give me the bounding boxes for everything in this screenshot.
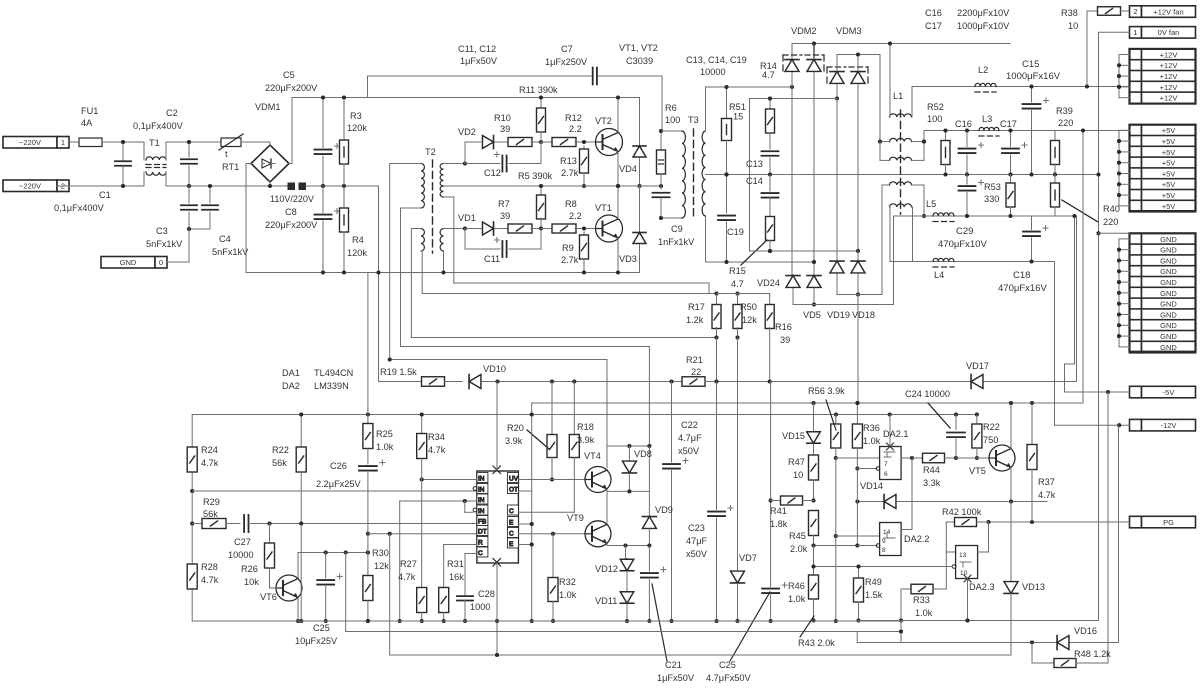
svg-text:GND: GND [1160, 235, 1177, 244]
svg-text:4.7μF: 4.7μF [678, 433, 702, 443]
svg-text:R37: R37 [1038, 477, 1055, 487]
+5V connector block [1130, 125, 1142, 137]
wire DA2.3 bottom pin down [967, 579, 969, 621]
diode VD17 [971, 375, 983, 389]
wire DA2.2 second input [836, 535, 880, 537]
wire neutral rail continues [306, 185, 379, 187]
transistor VT2 [596, 129, 623, 156]
wire VDM1 bottom vertex to neutral rail [269, 181, 271, 186]
wire VDM3 left anode [836, 85, 838, 99]
svg-text:VD11: VD11 [595, 596, 617, 606]
svg-text:-5V: -5V [1163, 388, 1175, 397]
wire DA1 UV row to VT4 base [518, 479, 585, 481]
junction dots C1 [121, 140, 125, 144]
wire VT1 emitter [617, 239, 619, 273]
svg-text:R15: R15 [729, 266, 746, 276]
svg-text:OT: OT [509, 486, 518, 493]
svg-text:8: 8 [882, 547, 886, 554]
svg-text:+5V: +5V [1162, 180, 1176, 189]
wire VDM1 top vertex [269, 142, 271, 146]
wire row3 column down to rail [399, 501, 401, 621]
svg-text:5nFx1kV: 5nFx1kV [212, 247, 249, 257]
resistor R28 [187, 564, 197, 589]
wire x=858 down to R36 [857, 295, 859, 404]
wire VD16 line [857, 642, 1118, 644]
resistor R16 [769, 294, 771, 306]
wire VDM3 cathodes to x=880 [836, 55, 838, 71]
svg-text:4.7: 4.7 [762, 70, 775, 80]
svg-text:4.7k: 4.7k [1038, 490, 1056, 500]
svg-text:UV: UV [509, 475, 519, 482]
diode VD24 [786, 276, 800, 288]
wire VT4 emitter to VT9 collector [606, 489, 608, 491]
wire FU1 to T1 [102, 141, 144, 143]
svg-text:+12V fan: +12V fan [1153, 7, 1183, 16]
resistor R10 [508, 138, 532, 147]
resistor R3 [343, 98, 345, 141]
svg-text:3.9k: 3.9k [577, 435, 595, 445]
svg-text:VD5: VD5 [803, 310, 821, 320]
resistor R41 [771, 500, 781, 502]
wire VT5 collector up [1010, 403, 1012, 449]
capacitor C29 [966, 175, 968, 185]
svg-text:0V fan: 0V fan [1158, 28, 1180, 37]
svg-text:C3039: C3039 [626, 56, 653, 66]
label R3 120k [342, 95, 346, 99]
svg-text:470μFx16V: 470μFx16V [998, 283, 1047, 294]
wire T2 sec bottom top lead [444, 228, 466, 230]
label R20 3.9k with pointer [527, 430, 549, 449]
label R6 100 [659, 129, 663, 133]
svg-text:R8: R8 [565, 199, 577, 209]
svg-text:C: C [478, 550, 483, 557]
line y=414.5 rail [192, 414, 977, 416]
capacitor C12 [465, 163, 500, 165]
resistor R21 [682, 377, 705, 387]
wire VDM3 right anode down [857, 85, 859, 252]
svg-text:GND: GND [1160, 267, 1177, 276]
label C21 1uFx50V pointer [652, 584, 667, 661]
svg-text:L1: L1 [893, 91, 903, 101]
capacitor C15 [1031, 87, 1033, 103]
svg-text:1000μFx10V: 1000μFx10V [957, 21, 1010, 31]
svg-text:R44: R44 [923, 465, 940, 475]
svg-text:220μFx200V: 220μFx200V [265, 83, 318, 93]
diode VD15 [807, 432, 821, 443]
svg-text:220: 220 [1058, 118, 1073, 128]
wire DA2.3 out to PG [978, 551, 989, 553]
svg-text:1μFx50V: 1μFx50V [657, 673, 695, 683]
wire HV bottom rail y=272.5 [246, 272, 640, 274]
resistor R18 [573, 382, 575, 436]
wire R33 line y=620.5 [859, 620, 1099, 622]
svg-text:R10: R10 [494, 113, 511, 123]
resistor R6 [660, 131, 662, 150]
svg-text:DA1: DA1 [282, 368, 300, 378]
svg-text:R18: R18 [577, 422, 594, 432]
capacitor C18 [1031, 216, 1033, 230]
inductor L1 winding E [890, 204, 912, 207]
svg-text:C16: C16 [955, 119, 972, 129]
wire DT line to DA1 [368, 533, 477, 535]
DA1 pin cells [477, 473, 488, 483]
svg-text:100: 100 [927, 114, 942, 124]
diode VD7 [737, 338, 739, 571]
wire T2 primary lead 2 [401, 207, 422, 209]
svg-text:C23: C23 [688, 523, 705, 533]
svg-text:DA2: DA2 [282, 381, 300, 391]
diode VD1 [465, 228, 481, 230]
resistor R9 [583, 232, 585, 237]
svg-text:R41: R41 [770, 506, 787, 516]
resistor R45 [809, 511, 819, 536]
DA1 top pin X [493, 466, 501, 474]
svg-text:R32: R32 [559, 577, 576, 587]
resistor R8 [541, 228, 553, 230]
svg-text:1.5k: 1.5k [865, 590, 883, 600]
svg-text:R56 3.9k: R56 3.9k [808, 386, 845, 396]
svg-text:GND: GND [1160, 343, 1177, 352]
label R7 39 [539, 226, 543, 230]
svg-text:VT4: VT4 [584, 451, 601, 461]
+12V connector block [1130, 49, 1142, 61]
connector PG [1130, 516, 1142, 528]
svg-text:10000: 10000 [228, 550, 254, 560]
wire R42 left down to DA2.3 [945, 522, 947, 552]
capacitor C7 [592, 68, 594, 85]
resistor R53 [1010, 175, 1012, 184]
capacitor C13 [762, 150, 779, 152]
comparator DA2.1 [880, 447, 902, 480]
svg-text:1000: 1000 [470, 602, 490, 612]
svg-text:2200μFx10V: 2200μFx10V [957, 8, 1010, 18]
wire 0V fan to GND [1099, 31, 1130, 33]
svg-text:2.0k: 2.0k [790, 544, 808, 554]
label C8 220uFx200V [321, 270, 325, 274]
junction dot C4 top [208, 184, 212, 188]
svg-text:C25: C25 [719, 660, 736, 670]
wire T3 center tap rail y=174.5 [706, 174, 1098, 176]
svg-text:IN: IN [478, 497, 485, 504]
wire R56 column [813, 403, 815, 431]
wire T3 sec bottom lead down [705, 216, 707, 262]
transistor VT4 [585, 467, 611, 493]
wire VT6 base [270, 587, 277, 589]
capacitor C5 [322, 98, 324, 148]
svg-text:10μFx25V: 10μFx25V [295, 636, 338, 646]
bottom rail y=621 [192, 620, 901, 622]
svg-text:1μFx50V: 1μFx50V [460, 56, 498, 66]
svg-text:L2: L2 [978, 65, 988, 75]
svg-text:R42 100k: R42 100k [942, 507, 982, 517]
connector -5V [1130, 386, 1142, 398]
svg-text:7: 7 [884, 461, 888, 468]
svg-text:VD10: VD10 [483, 364, 506, 374]
svg-text:C5: C5 [283, 70, 295, 80]
wire R16 column down [770, 382, 772, 587]
wire C23 column [716, 382, 718, 510]
wire VT2 emitter [617, 152, 619, 186]
svg-text:R43 2.0k: R43 2.0k [798, 638, 835, 648]
core L1 [900, 110, 902, 214]
svg-text:R45: R45 [789, 531, 806, 541]
svg-text:C4: C4 [219, 234, 231, 244]
fuse FU1 [79, 138, 102, 147]
wire VDM2 left anode down to VD24 [791, 87, 793, 275]
svg-text:DA2.1: DA2.1 [883, 429, 909, 439]
svg-text:GND: GND [1160, 310, 1177, 319]
capacitor C28 [464, 554, 466, 597]
svg-text:2.2: 2.2 [569, 211, 582, 221]
svg-text:R24: R24 [201, 445, 218, 455]
capacitor C14 [769, 175, 771, 192]
svg-text:R13: R13 [560, 156, 577, 166]
capacitor C16 output [966, 131, 968, 147]
wire line y=337.5 from T2 [410, 229, 412, 338]
-5V rail y=216 [894, 215, 1077, 217]
diode VD3 [639, 186, 641, 232]
resistor R56 [835, 415, 837, 425]
resistor R40 [1054, 175, 1056, 184]
svg-text:1: 1 [1133, 28, 1137, 37]
svg-text:R46: R46 [788, 581, 805, 591]
svg-text:VD24: VD24 [757, 278, 780, 288]
comparator DA2.3 [956, 546, 978, 579]
transistor VT6 [276, 575, 302, 601]
wire T2 top primary lead left [390, 163, 421, 165]
inductor L1 winding B [890, 138, 912, 141]
svg-text:4.7k: 4.7k [398, 572, 416, 582]
transformer T3 core [693, 129, 695, 219]
capacitor C17 output [1010, 131, 1012, 147]
capacitor C24 [955, 415, 957, 430]
svg-text:+12V: +12V [1160, 50, 1178, 59]
wire line y=346.5 from T2 [400, 208, 402, 347]
svg-text:6: 6 [884, 471, 888, 478]
svg-text:R16: R16 [775, 322, 792, 332]
svg-text:+12V: +12V [1160, 94, 1178, 103]
DA1 row3 line [400, 500, 477, 502]
svg-text:C13: C13 [746, 159, 763, 169]
svg-text:220: 220 [1103, 217, 1118, 227]
resistor R46 [811, 543, 815, 547]
svg-text:2.7k: 2.7k [561, 168, 579, 178]
wire +HV rail y=97.5 [292, 97, 368, 99]
svg-text:DT: DT [478, 528, 487, 535]
svg-text:VT5: VT5 [969, 466, 986, 476]
svg-text:VDM2: VDM2 [791, 26, 817, 36]
svg-text:RT1: RT1 [222, 162, 239, 172]
wire L1 B,C left join [880, 141, 890, 143]
svg-text:C29: C29 [956, 226, 973, 237]
wire line y=381.5 continues [498, 381, 683, 383]
svg-text:R27: R27 [400, 559, 417, 569]
svg-text:R21: R21 [686, 355, 703, 365]
wire C7 to corner [599, 75, 663, 77]
svg-text:R17: R17 [688, 302, 705, 312]
wire left column x=192.2 [191, 415, 193, 622]
wire anode line y=98.5 [750, 98, 838, 100]
bridge rectifier VDM1 [251, 145, 289, 182]
svg-text:1.0k: 1.0k [376, 442, 394, 452]
inductor L4 [933, 258, 954, 261]
dual diode VDM2 [783, 54, 802, 56]
top +12V rail y=43.5 [792, 43, 1010, 45]
line y=403 from R21 area [532, 402, 1083, 404]
wire R50 down to VD7 [737, 338, 739, 571]
transformer T2 core [432, 160, 434, 253]
capacitor C19 [726, 175, 728, 214]
wire L1 C right to +5V rail [912, 159, 925, 161]
svg-text:R48 1.2k: R48 1.2k [1074, 649, 1111, 659]
svg-text:4.7k: 4.7k [201, 575, 219, 585]
svg-text:C11: C11 [484, 254, 500, 264]
svg-text:3.3k: 3.3k [923, 478, 941, 488]
svg-text:T2: T2 [425, 147, 436, 157]
resistor R36 [856, 403, 858, 424]
diode VD19 [836, 99, 838, 261]
svg-text:750: 750 [983, 435, 998, 445]
svg-text:+12V: +12V [1160, 83, 1178, 92]
svg-text:GND: GND [1160, 256, 1177, 265]
resistor R48 [1031, 643, 1033, 664]
capacitor C8 [322, 186, 324, 213]
wire +rail y=97.5 right segment [368, 97, 640, 99]
svg-text:22: 22 [691, 367, 701, 377]
resistor R13 [583, 146, 585, 152]
svg-text:2.7k: 2.7k [561, 255, 579, 265]
label C24 10000 pointer [928, 403, 950, 428]
+5V rail y=130.5 [924, 130, 1130, 132]
svg-text:R11 390k: R11 390k [519, 85, 558, 95]
svg-text:1.0k: 1.0k [788, 594, 806, 604]
label C27 10000 [267, 521, 271, 525]
inductor L3 [979, 127, 999, 130]
resistor R42 [946, 521, 954, 523]
capacitor C22 [663, 463, 680, 465]
+5V block bus [1118, 130, 1120, 206]
capacitor C25 10uF [325, 553, 327, 579]
transistor VT9 [585, 521, 611, 547]
wire GND rail into block [1099, 232, 1130, 234]
svg-text:+5V: +5V [1162, 148, 1176, 157]
svg-text:FB: FB [478, 518, 486, 525]
svg-text:15: 15 [733, 112, 743, 122]
svg-text:C14: C14 [746, 176, 763, 186]
resistor R37 [1031, 403, 1033, 445]
DA1 C row [465, 553, 477, 555]
svg-text:C7: C7 [561, 44, 573, 54]
transformer T1 common-mode choke [146, 157, 166, 160]
resistor R20 [551, 382, 553, 436]
wire R47 bottom [813, 480, 815, 501]
wire up to L1 winding D [881, 185, 883, 295]
resistor R26 [269, 524, 271, 544]
capacitor C25 4.7uF [762, 588, 779, 590]
svg-text:330: 330 [984, 194, 999, 204]
svg-text:E: E [509, 541, 514, 548]
svg-text:16k: 16k [449, 572, 464, 582]
svg-text:4.7k: 4.7k [428, 445, 446, 455]
svg-text:R26: R26 [241, 564, 258, 574]
svg-text:R53: R53 [984, 182, 1001, 192]
wire line y=294 from T2 area to R17 [421, 251, 423, 294]
diode VD16 [1057, 636, 1069, 650]
svg-text:C11, C12: C11, C12 [458, 44, 496, 54]
dual diode VDM3 [827, 66, 846, 68]
wire from X2 [69, 185, 144, 187]
connector X2 ~220V pin 2 [3, 180, 57, 192]
main control line y=381.5 [378, 186, 380, 382]
svg-text:LM339N: LM339N [314, 381, 349, 391]
wire rail to C7 level [367, 76, 369, 98]
svg-text:VD9: VD9 [655, 505, 673, 515]
svg-text:1: 1 [61, 138, 65, 147]
resistor R32 [552, 534, 554, 578]
svg-text:R19 1.5k: R19 1.5k [380, 367, 417, 377]
svg-text:T3: T3 [688, 115, 699, 125]
DA1 row1 line from R34/R27 column [422, 479, 477, 481]
svg-text:C9: C9 [671, 224, 683, 234]
mid rail y=186 driver return from T2 tap [444, 185, 662, 187]
svg-text:VD19: VD19 [827, 310, 850, 320]
wire R45 bottom to DA2.2 [814, 545, 858, 547]
line y=251 R15 to VD18 [750, 250, 859, 252]
svg-text:R7: R7 [498, 199, 510, 209]
svg-text:100: 100 [665, 115, 680, 125]
svg-text:4.7k: 4.7k [201, 458, 219, 468]
GND connector block [1130, 233, 1142, 245]
svg-text:10000: 10000 [700, 67, 726, 77]
svg-text:1.8k: 1.8k [770, 519, 788, 529]
wire R56 column to bottom rail [835, 458, 837, 621]
wire VT6 collector corner down [345, 553, 347, 632]
svg-text:C16: C16 [925, 8, 942, 18]
resistor R12 [541, 141, 553, 143]
svg-text:R52: R52 [927, 102, 944, 112]
junction dots C2 [187, 140, 191, 144]
connector X1 ~220V pin 1 [3, 137, 57, 149]
svg-text:2: 2 [1133, 7, 1137, 16]
DA1 row4 jog [464, 501, 466, 512]
svg-text:12k: 12k [374, 561, 389, 571]
wire R38 down to +12V rail [1086, 11, 1088, 87]
wire +12V rail y=86.5 [912, 86, 1130, 88]
svg-text:GND: GND [1160, 321, 1177, 330]
svg-text:VDM1: VDM1 [255, 102, 281, 112]
svg-text:1.2k: 1.2k [686, 315, 704, 325]
connector GND pin 0 [101, 257, 155, 269]
svg-text:C2: C2 [166, 108, 178, 118]
wire T3 sec top lead up [705, 87, 707, 131]
svg-text:GND: GND [1160, 246, 1177, 255]
wire +12V rail into block [1117, 85, 1121, 89]
wire L from X1 [69, 141, 79, 143]
svg-text:R22: R22 [272, 445, 289, 455]
wire T1 bottom [166, 185, 288, 187]
svg-text:C28: C28 [478, 589, 495, 599]
wire VDM1 right vertex up to +rail [289, 163, 292, 165]
wire L1 B right [912, 141, 925, 143]
inductor L1 winding C [890, 157, 912, 160]
wire DA2.2 out pin up to R44 node [901, 529, 912, 531]
wire T1 to RT1 [166, 141, 221, 143]
svg-text:R38: R38 [1061, 8, 1078, 18]
svg-text:1nFx1kV: 1nFx1kV [658, 237, 695, 247]
svg-text:R33: R33 [913, 595, 930, 605]
svg-text:+5V: +5V [1162, 191, 1176, 200]
resistor R38 [1087, 10, 1098, 12]
